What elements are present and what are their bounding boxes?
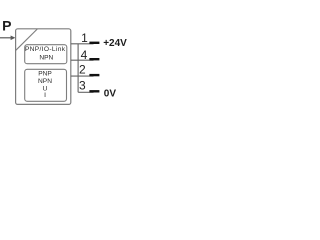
wire pressure input arrow shaft <box>0 37 12 39</box>
svg-text:3: 3 <box>79 79 86 93</box>
pin 1 contact tick <box>89 42 99 44</box>
sensor symbol diagonal <box>16 29 38 50</box>
svg-text:+24V: +24V <box>103 38 127 49</box>
svg-text:I: I <box>44 92 46 99</box>
output stage box OU2 <box>25 69 67 101</box>
svg-text:P: P <box>2 18 11 34</box>
svg-text:4: 4 <box>81 48 88 62</box>
wire pin3 (L-) <box>78 91 93 93</box>
svg-text:1: 1 <box>81 31 88 45</box>
svg-text:PNP: PNP <box>38 71 52 78</box>
wire jog pin2 to pin3 <box>77 76 79 92</box>
sensor outer box U1 <box>16 29 71 105</box>
svg-text:0V: 0V <box>104 89 117 100</box>
wire jog spine pin1-pin4-pin2 <box>77 44 79 76</box>
svg-text:2: 2 <box>79 63 86 77</box>
svg-text:NPN: NPN <box>39 55 53 62</box>
pin 2 contact tick <box>89 74 99 76</box>
wire pin2 (OUT2) <box>71 75 94 77</box>
pin 3 contact tick <box>89 90 99 92</box>
output stage box OU1 <box>25 45 67 64</box>
svg-text:NPN: NPN <box>38 78 52 85</box>
pin 4 contact tick <box>89 58 99 60</box>
pressure input arrowhead <box>11 36 16 41</box>
svg-text:PNP/IO-Link: PNP/IO-Link <box>25 46 66 53</box>
wire pin1 (L+) <box>71 43 94 45</box>
wire pin4 (C/Q OUT1) <box>71 59 94 61</box>
